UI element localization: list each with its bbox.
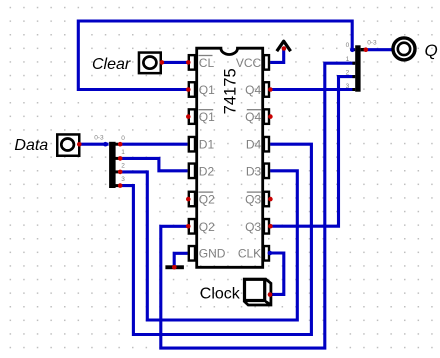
svg-text:Q4: Q4 xyxy=(245,83,261,97)
node data bit3 xyxy=(118,183,123,188)
wire CLK to clock xyxy=(270,253,284,294)
node data splitter root xyxy=(103,142,108,147)
node Q4 pin xyxy=(268,87,273,92)
node Q1-bar pin xyxy=(186,114,191,119)
svg-text:Q4: Q4 xyxy=(245,110,261,124)
pin 2 Q1 (left) xyxy=(189,82,215,97)
svg-text:3: 3 xyxy=(346,83,350,90)
svg-text:Q1: Q1 xyxy=(199,83,215,97)
wire VCC to power xyxy=(270,48,284,63)
svg-text:D3: D3 xyxy=(246,164,262,178)
node Q splitter bit0 xyxy=(350,48,355,53)
splitter S1 (Data 0-3) xyxy=(94,135,125,188)
clock component (3D button) xyxy=(200,279,271,305)
svg-text:0-3: 0-3 xyxy=(367,40,377,47)
node Q1 pin xyxy=(186,87,191,92)
pin 3 Q1-bar (left) xyxy=(189,109,215,124)
node Q bus root xyxy=(364,47,369,52)
node Clear output xyxy=(160,60,165,65)
splitter S2 (Q 0-3) xyxy=(346,40,377,92)
pin 4 D1 (left) xyxy=(189,137,215,152)
pin 11 Q3-bar (right) xyxy=(245,192,269,207)
junction dots (blue) xyxy=(103,48,355,256)
pin 16 VCC (right) xyxy=(236,55,269,70)
input pin Data (button with circle) xyxy=(14,134,79,155)
svg-text:0-3: 0-3 xyxy=(94,135,104,142)
IC U1 74175 body xyxy=(197,48,263,267)
pin 15 Q4 (right) xyxy=(245,82,269,97)
pin 8 GND (left) xyxy=(189,246,226,261)
svg-text:Q3: Q3 xyxy=(245,220,261,234)
node Q2-bar pin xyxy=(186,197,191,202)
svg-text:1: 1 xyxy=(121,149,125,156)
node Data output xyxy=(77,142,82,147)
node power xyxy=(282,46,287,51)
svg-text:Q1: Q1 xyxy=(199,110,215,124)
svg-text:D2: D2 xyxy=(199,164,215,178)
svg-text:74175: 74175 xyxy=(221,68,240,114)
wire Q bus: splitter to output pin Q xyxy=(366,48,394,51)
svg-text:Clear: Clear xyxy=(92,56,131,73)
svg-text:CL: CL xyxy=(199,56,215,70)
pin 7 Q2 (left) xyxy=(189,219,215,234)
svg-text:Q3: Q3 xyxy=(245,193,261,207)
node data bit0 xyxy=(118,142,123,147)
wire data bit3 to D4 (around bottom) xyxy=(120,144,311,334)
node Q4-bar pin xyxy=(268,114,273,119)
node Q3-bar pin xyxy=(268,197,273,202)
pin 9 CLK (right) xyxy=(238,246,269,261)
svg-text:0: 0 xyxy=(346,42,350,49)
svg-text:D4: D4 xyxy=(246,138,262,152)
wire Clear to CL xyxy=(162,61,188,64)
pin 1 CL (left) xyxy=(189,55,215,70)
wire data bit2 to D3 (around bottom) xyxy=(120,171,297,320)
node ground xyxy=(172,265,177,270)
pin 13 D4 (right) xyxy=(246,137,269,152)
wire Q4 to Q splitter bit3 xyxy=(270,88,355,91)
svg-text:2: 2 xyxy=(346,69,350,76)
svg-text:Q2: Q2 xyxy=(199,193,215,207)
pin 10 Q3 (right) xyxy=(245,219,269,234)
pin 12 D3 (right) xyxy=(246,164,269,179)
output pin Q (double circle) xyxy=(393,38,438,60)
svg-text:Q: Q xyxy=(425,41,438,60)
node Q2 pin xyxy=(186,224,191,229)
wire Q2 to Q splitter bit1 (around bottom) xyxy=(161,63,355,348)
wire data bit0 to D1 xyxy=(120,143,187,146)
svg-text:GND: GND xyxy=(199,247,226,261)
svg-text:Clock: Clock xyxy=(200,286,241,303)
node Q3 pin xyxy=(268,224,273,229)
pin 5 D2 (left) xyxy=(189,164,215,179)
node data bit2 xyxy=(118,170,123,175)
svg-text:Data: Data xyxy=(14,137,48,154)
wire Q1 loop: Q1 pin to top-left, across top, down to Q splitter bit0 xyxy=(78,21,352,90)
svg-text:VCC: VCC xyxy=(236,56,262,70)
ground symbol xyxy=(165,265,184,269)
pin 14 Q4-bar (right) xyxy=(245,109,269,124)
node data bit1 xyxy=(118,156,123,161)
power VCC arrow xyxy=(277,41,291,51)
svg-text:0: 0 xyxy=(121,135,125,142)
svg-text:CLK: CLK xyxy=(238,247,261,261)
svg-text:D1: D1 xyxy=(199,138,215,152)
pin 6 Q2-bar (left) xyxy=(189,192,215,207)
svg-text:Q2: Q2 xyxy=(199,220,215,234)
node clock output xyxy=(268,292,273,297)
svg-text:2: 2 xyxy=(121,163,125,170)
wire Q3 to Q splitter bit2 xyxy=(270,77,355,227)
svg-text:1: 1 xyxy=(346,56,350,63)
wire Data pin to splitter root xyxy=(79,143,108,146)
wire GND to ground xyxy=(174,253,188,266)
wire data bit1 to D2 xyxy=(120,158,187,170)
junction dots (red connection points) xyxy=(77,46,368,297)
input pin Clear (button with circle) xyxy=(92,53,161,74)
node CLK wire joint xyxy=(268,251,273,256)
node CL pin xyxy=(186,60,191,65)
svg-text:3: 3 xyxy=(121,176,125,183)
